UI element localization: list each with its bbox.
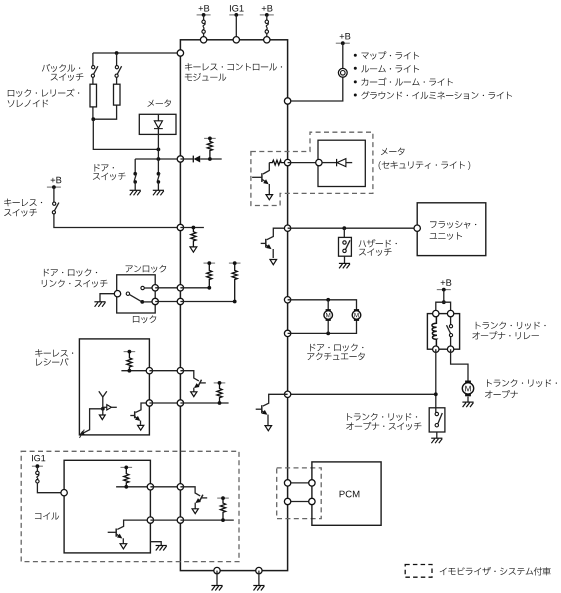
door lock link switch box: [117, 275, 156, 313]
module transistor Q2: [180, 371, 205, 392]
junction node coil resistor: [124, 485, 128, 489]
Q3 down arrow: [266, 195, 273, 200]
antenna down arrow: [102, 409, 104, 415]
junction node solenoid bottom: [91, 117, 95, 121]
meter diode D1: [154, 114, 163, 149]
fuse below +B: [202, 20, 205, 23]
wire link switch pivot to ground: [100, 294, 118, 302]
wire meter/doorswitch row: [135, 158, 180, 160]
module terminal node at top x=236.3: [233, 37, 239, 43]
receiver pull-up bar: [124, 351, 136, 353]
module terminal node at top x=203.6: [200, 37, 206, 43]
pull-up resistor R1: [207, 263, 212, 288]
label unlock: [126, 265, 167, 273]
PCM terminal upper: [309, 480, 315, 486]
junction node relay feed: [442, 300, 446, 304]
wire +B to fuse: [266, 15, 268, 20]
label lock release solenoid: [8, 89, 79, 97]
module terminal lock row: [177, 298, 183, 304]
wire receiver lower row to module: [149, 402, 180, 404]
junction node hazard: [342, 226, 346, 230]
label lock: [133, 315, 156, 323]
relay switch contact a: [449, 325, 452, 328]
pull-up resistor R2: [232, 263, 237, 301]
wire actuator lower row: [288, 319, 357, 333]
coil transistor Q6: [108, 520, 151, 543]
wire trunk switch to ground: [436, 432, 438, 438]
relay coil L1: [432, 317, 437, 346]
wire trunk motor to ground: [467, 397, 469, 402]
relay terminal bottom right: [447, 346, 453, 352]
relay terminal top left: [433, 310, 439, 316]
junction node coil row pullup: [221, 518, 225, 522]
pull-up stub R6 bar: [204, 137, 216, 139]
module transistor Q7: [180, 487, 207, 509]
label PCM: [340, 491, 360, 498]
label flasher unit: [430, 221, 476, 229]
relay switch contact b: [449, 334, 452, 337]
link switch lock contact node: [140, 300, 144, 304]
legend label immobilizer system: [440, 567, 551, 576]
module bottom terminal right: [256, 567, 262, 573]
junction node receiver resistor: [127, 369, 131, 373]
ground right door switch: [153, 190, 164, 195]
ground link switch: [94, 302, 105, 307]
ground module right: [253, 586, 264, 591]
buckle switch left contact a: [92, 66, 95, 69]
wire PCM lower row: [288, 501, 312, 503]
wire PCM upper row: [288, 482, 312, 484]
buckle switch right contact b: [115, 74, 118, 77]
link switch lever: [130, 295, 142, 302]
wire module data row stub: [180, 402, 228, 404]
junction node A: [157, 148, 161, 152]
ground trunk motor: [462, 402, 473, 407]
rf amplifier triangle: [107, 405, 112, 410]
junction node lock pullup: [233, 300, 237, 304]
wire coil box ground stub: [150, 542, 161, 546]
wire lock row inside module: [180, 301, 234, 303]
label keyless receiver: [35, 349, 73, 357]
door switch left contacts: [133, 172, 137, 176]
wire bottom ground right: [258, 571, 260, 586]
junction node keyless row: [192, 226, 196, 230]
hazard switch box: [339, 237, 352, 256]
link switch pivot node: [114, 291, 120, 297]
wire keyless switch to module: [54, 214, 180, 228]
label door switch: [95, 164, 114, 172]
actuator motor M1: [326, 309, 331, 311]
wire node A to node B: [157, 149, 159, 159]
receiver transistor Q1: [130, 403, 149, 425]
PCM box: [312, 462, 381, 525]
bias resistor R5 to arrow: [191, 228, 196, 247]
buckle switch left lever: [94, 66, 98, 74]
antenna: [99, 391, 107, 409]
label trunk lid opener relay: [476, 322, 546, 330]
legend dashed box: [405, 565, 432, 578]
label IG1 coil: [32, 455, 45, 461]
actuator motor M2: [354, 309, 359, 311]
door switch right contacts: [157, 172, 161, 176]
wire security row: [288, 162, 319, 164]
wire fuse to module terminal: [266, 33, 268, 40]
relay terminal top right: [447, 310, 453, 316]
power stub bar trunk relay: [437, 289, 451, 291]
coil pull-up resistor R7: [124, 467, 129, 486]
label +B trunk relay: [441, 279, 452, 285]
receiver transistor down arrow: [138, 425, 144, 430]
pull-up resistor R6: [207, 138, 212, 159]
keyless receiver box: [79, 339, 149, 435]
bullet ground illumination light: [354, 94, 357, 97]
wire trunk switch stem: [435, 408, 437, 413]
keyless switch contact b: [52, 211, 55, 214]
label security meter: [381, 148, 405, 156]
module terminal keyless switch row: [177, 224, 183, 230]
wire right door switch drop: [157, 159, 159, 172]
label +B keyless switch: [51, 177, 62, 183]
antenna input arrowhead: [79, 431, 85, 435]
module terminal lamp row: [284, 98, 290, 104]
Q6 down arrow: [120, 544, 127, 549]
wire +B to fuse: [203, 15, 205, 20]
antenna junction node: [101, 407, 105, 411]
ground hazard switch: [339, 263, 350, 268]
junction node B: [157, 157, 161, 161]
hazard switch contacts: [343, 241, 346, 244]
junction nodes actuator motor1: [326, 298, 330, 302]
pull-up stub R8 bar: [217, 497, 229, 499]
pull-up stub R2 bar: [229, 262, 241, 264]
wire switch to solenoid left: [92, 77, 94, 84]
wire relay to trunk motor: [451, 349, 468, 380]
wire +B to relay split: [443, 290, 445, 303]
buckle switch left contact b: [91, 74, 94, 77]
wire lock row: [155, 301, 180, 303]
module bottom terminal left: [214, 567, 220, 573]
trunk opener switch box: [429, 408, 445, 432]
power stub bar +B: [260, 14, 274, 16]
power stub bar interior lights: [336, 42, 350, 44]
security diode D3: [322, 159, 352, 167]
ground left door switch: [130, 190, 141, 195]
junction node unlock pullup: [207, 286, 211, 290]
module terminal security row: [284, 159, 290, 165]
module transistor Q4: [261, 228, 288, 258]
module terminal trunk row: [284, 391, 290, 397]
wire hazard to ground: [344, 256, 346, 263]
wire actuator upper row: [288, 300, 357, 311]
receiver terminal lower: [146, 400, 152, 406]
coil box terminal lower right: [147, 517, 153, 523]
hazard switch lever: [346, 240, 350, 249]
keyless switch lever: [54, 203, 59, 211]
wire +B to keyless switch: [53, 187, 55, 202]
module terminal coil upper: [177, 484, 183, 490]
wire unlock row inside module: [180, 287, 209, 289]
wire +B to lamp to module: [288, 43, 343, 101]
link switch unlock contact: [141, 286, 144, 289]
power terminal IG1 label: [230, 5, 244, 12]
bullet map light: [354, 54, 357, 57]
coil pull-up bar: [121, 466, 133, 468]
module terminal door switch row: [177, 156, 183, 162]
door switch left lever: [134, 173, 136, 181]
wire coil upper row to module: [150, 486, 180, 488]
module terminal flasher row: [284, 225, 290, 231]
module transistor Q5: [256, 394, 288, 425]
immobilizer dashed outline around security meter: [251, 132, 373, 205]
door switch right lever: [157, 173, 159, 181]
fuse coil box: [36, 471, 39, 474]
flasher unit terminal: [414, 225, 420, 231]
label buckle switch: [42, 64, 80, 72]
wire solenoid left bottom: [92, 107, 94, 119]
wire solenoid right bottom: [93, 105, 116, 119]
label meter: [147, 99, 171, 107]
module terminal unlock row: [177, 285, 183, 291]
module transistor Q2 down arrow: [191, 392, 197, 397]
module terminal solenoid row: [177, 50, 183, 56]
link switch terminal lock: [152, 298, 158, 304]
bullet room light: [354, 67, 357, 70]
coil box: [64, 460, 150, 553]
receiver pull-up resistor R3: [127, 352, 132, 371]
security meter box: [318, 140, 365, 186]
wire right door switch to ground: [157, 182, 159, 190]
Q5 down arrow: [265, 426, 272, 431]
wire solenoid top rail: [93, 52, 180, 54]
wire lock contact to box edge: [142, 301, 155, 303]
coil box terminal left: [61, 490, 67, 496]
wire keyless row stub: [180, 227, 204, 229]
coil box terminal upper right: [147, 484, 153, 490]
module terminal receiver lower: [177, 400, 183, 406]
immobilizer dashed box at PCM: [277, 468, 322, 519]
receiver terminal upper: [146, 368, 152, 374]
wire bottom ground left: [216, 571, 218, 586]
trunk relay box: [427, 314, 459, 350]
power terminal +B label: [262, 5, 273, 11]
ground module left: [211, 586, 222, 591]
label door lock actuator: [310, 344, 363, 352]
label keyless control module: [185, 63, 282, 71]
pull-up stub R1 bar: [204, 262, 216, 264]
label +B interior lights: [340, 33, 351, 39]
flasher unit box: [417, 203, 486, 256]
wire relay switch lead b: [450, 337, 452, 346]
module terminal actuator lower: [284, 330, 290, 336]
label door lock link switch: [44, 269, 97, 277]
link switch pole contact: [126, 292, 129, 295]
label trunk lid opener switch: [347, 413, 417, 421]
Q4 down arrow: [270, 260, 277, 265]
wire IG1 to module terminal: [235, 15, 237, 40]
wire solenoid junction down-right to door switch node: [93, 119, 158, 149]
lock release solenoid left box: [90, 84, 97, 107]
label trunk lid opener: [487, 379, 557, 387]
buckle switch right lever: [117, 66, 121, 74]
ground coil box: [156, 546, 167, 551]
junction node trunk switch: [434, 392, 438, 396]
module terminal PCM upper: [284, 480, 290, 486]
link switch terminal unlock: [152, 285, 158, 291]
module terminal PCM lower: [284, 498, 290, 504]
junction node solenoid rail: [115, 51, 119, 55]
wire left door switch drop: [134, 159, 136, 172]
pull-up stub R4 bar: [214, 382, 226, 384]
wire unlock row: [155, 287, 180, 289]
power stub bar IG1: [229, 14, 243, 16]
wire coil row stub: [180, 519, 233, 521]
power stub bar IG1 coil: [32, 465, 43, 467]
junction node data pullup: [218, 401, 222, 405]
junction node diode row: [208, 157, 212, 161]
wire motor1 leads: [327, 300, 329, 311]
label hazard switch: [359, 239, 397, 247]
module diode D2: [180, 156, 221, 163]
module terminal actuator upper: [284, 297, 290, 303]
label coil: [35, 512, 59, 519]
wire flasher row: [288, 227, 418, 229]
keyless control module box: [180, 40, 287, 571]
module terminal node at top x=266.8: [264, 37, 270, 43]
R5 down arrow: [190, 247, 197, 252]
pull-up resistor R8: [220, 498, 225, 520]
power stub bar keyless switch: [47, 186, 61, 188]
trunk switch contacts: [435, 412, 438, 415]
label keyless switch: [4, 199, 42, 207]
wire receiver data row stub: [121, 370, 149, 372]
module transistor Q3 with collector resistor: [252, 160, 288, 194]
relay terminal bottom left: [433, 346, 439, 352]
lamp (illumination): [338, 68, 347, 77]
wire relay feed branches: [436, 302, 451, 313]
wire relay switch lead: [450, 317, 452, 325]
wire hazard drop: [343, 228, 345, 237]
wire IG1 to fuse: [36, 466, 38, 471]
trunk switch lever: [438, 413, 442, 424]
relay switch lever: [447, 325, 452, 334]
wire right buckle switch drop: [116, 53, 118, 66]
buckle switch right contact a: [115, 66, 118, 69]
wire coil lower row to module: [150, 519, 180, 521]
trunk motor M3: [465, 381, 471, 384]
wire receiver upper row to module: [149, 370, 180, 372]
meter box: [139, 114, 176, 134]
security meter terminal: [316, 159, 322, 165]
bullet cargo room light: [354, 80, 357, 83]
wire relay coil to switch column: [435, 349, 437, 408]
ground trunk opener switch: [431, 438, 442, 443]
immobilizer dashed box around coil: [21, 451, 239, 561]
wire switch to solenoid right: [116, 77, 118, 84]
wire module to trunk circuit: [288, 393, 436, 395]
wire fuse to module terminal: [203, 33, 205, 40]
wire coil resistor row: [116, 486, 150, 488]
wire fuse to coil box: [37, 483, 61, 493]
power stub bar +B: [197, 14, 211, 16]
lock release solenoid right box: [114, 84, 121, 105]
wire antenna input: [82, 409, 103, 434]
keyless switch contact a: [53, 202, 56, 205]
module transistor Q7 down arrow: [192, 509, 198, 514]
module terminal coil lower: [177, 517, 183, 523]
module terminal receiver upper: [177, 368, 183, 374]
wire left door switch to ground: [134, 182, 136, 190]
wire left buckle switch drop: [92, 53, 94, 66]
pull-up resistor R4: [217, 383, 222, 403]
PCM terminal lower: [309, 498, 315, 504]
fuse below +B: [265, 20, 268, 23]
power terminal +B label: [199, 5, 210, 11]
